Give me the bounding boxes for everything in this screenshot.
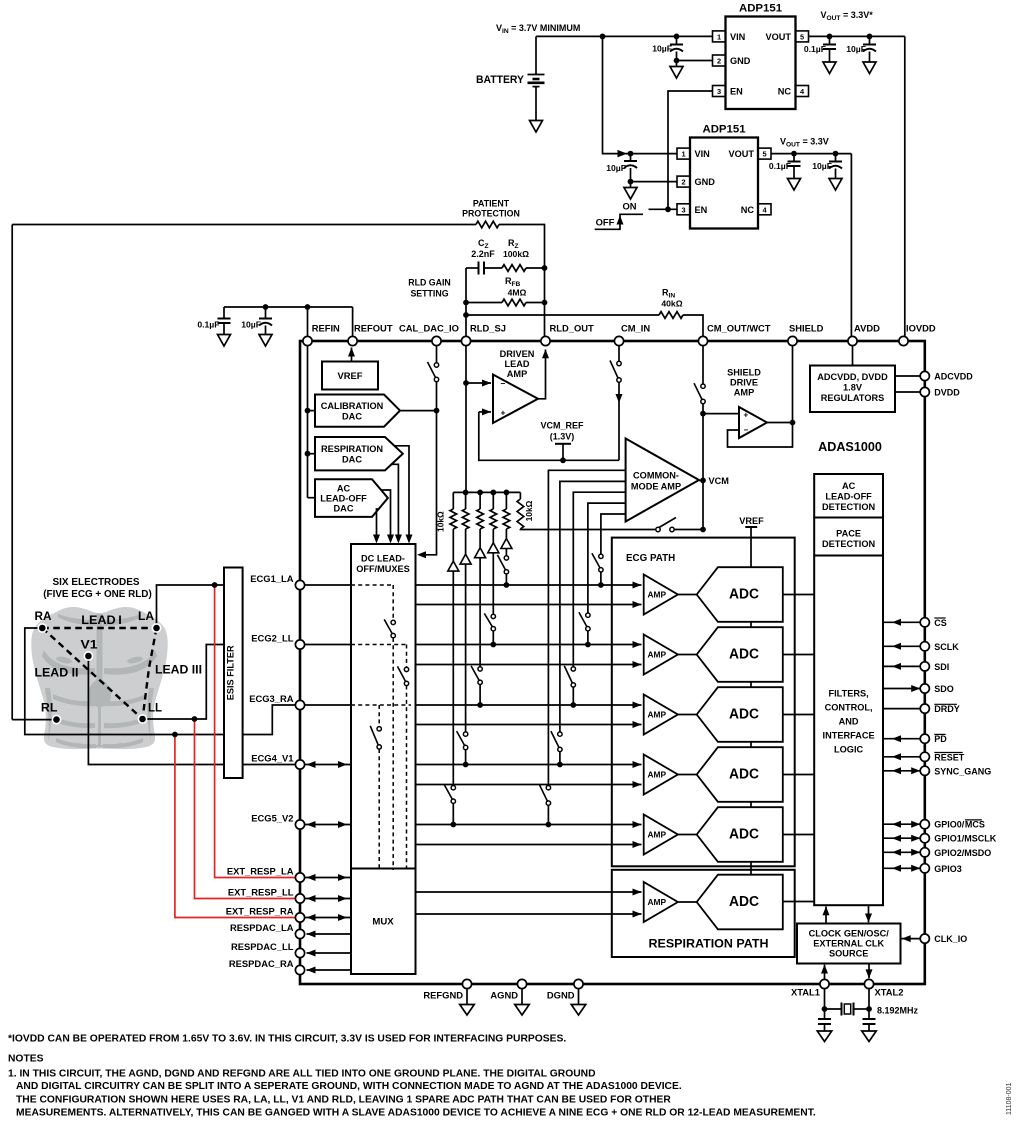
svg-text:EXT_RESP_LA: EXT_RESP_LA: [227, 866, 294, 877]
U2 pin 1 VIN: [677, 148, 710, 159]
U1 pin 4 NC: [778, 86, 809, 97]
block ECG PATH box: [612, 538, 795, 867]
dashed mux path 2: [351, 645, 407, 871]
svg-text:AND: AND: [839, 717, 859, 727]
svg-text:ADC: ADC: [729, 707, 759, 723]
wire rail to REFIN pin: [307, 307, 309, 337]
svg-text:ADCVDD: ADCVDD: [934, 372, 973, 382]
svg-text:1: 1: [681, 150, 685, 159]
ADC channel 1: [697, 567, 783, 622]
svg-text:DETECTION: DETECTION: [822, 502, 875, 512]
svg-text:10µF: 10µF: [812, 161, 832, 171]
svg-text:*IOVDD CAN BE OPERATED FROM 1.: *IOVDD CAN BE OPERATED FROM 1.65V TO 3.6…: [8, 1034, 566, 1045]
svg-text:VREF: VREF: [337, 370, 362, 381]
switch on common-mode sense ch5: [539, 785, 550, 806]
svg-text:AMP: AMP: [648, 649, 667, 659]
amp ECG channel 1: [644, 575, 678, 615]
amp ECG channel 4: [644, 755, 678, 795]
pin AVDD: [848, 323, 880, 346]
block RESPIRATION PATH box: [612, 870, 795, 957]
svg-text:LOGIC: LOGIC: [834, 745, 863, 755]
wire SDO from logic: [883, 685, 920, 692]
svg-text:1.8V: 1.8V: [843, 383, 863, 393]
svg-text:AMP: AMP: [648, 709, 667, 719]
ADC respiration: [697, 875, 783, 930]
electrode V1: [81, 638, 99, 661]
svg-text:AMP: AMP: [648, 769, 667, 779]
wire amp5 to adc5: [678, 834, 697, 836]
pin CLK_IO: [920, 934, 967, 944]
svg-text:−: −: [744, 426, 749, 435]
wire ECG channel 3 inputs: [305, 702, 642, 729]
ADC channel 2: [697, 627, 783, 682]
switch on common-mode sense ch3: [564, 666, 575, 687]
connection arrow ch1 ladder: [501, 539, 512, 549]
capacitor C8 10uF at REFIN: [241, 307, 272, 346]
crystal Y1 8.192MHz: [825, 1003, 919, 1016]
svg-text:SDI: SDI: [934, 662, 949, 672]
electrode LA: [138, 609, 161, 633]
wire U1 GND to ground: [677, 61, 713, 67]
amp U5 common-mode amp: [626, 439, 699, 522]
wire XTAL2 external: [866, 989, 872, 1031]
figure number 11108-001: [1006, 1082, 1013, 1115]
svg-text:VCM: VCM: [709, 476, 730, 486]
wire EXT_RESP_LL bidirectional to mux: [305, 895, 351, 902]
svg-text:NC: NC: [741, 205, 755, 215]
svg-text:5: 5: [800, 33, 804, 42]
svg-text:VOUT: VOUT: [765, 32, 791, 42]
pin DGND: [547, 979, 586, 1015]
svg-text:(1.3V): (1.3V): [550, 432, 575, 442]
wire U2 VOUT rail: [771, 153, 851, 155]
label 10k left: [436, 511, 446, 532]
label ADAS1000: [818, 440, 882, 454]
ground at U1 GND: [670, 67, 683, 79]
wire ECG channel 1 inputs: [305, 582, 642, 609]
wire LL electrode to ECG2_LL row: [143, 645, 225, 720]
pin SDI: [920, 662, 949, 672]
resistor RFB 4M: [466, 276, 545, 306]
pin SCLK: [920, 642, 959, 652]
switch on mux path 2: [398, 666, 409, 685]
wire SHIELD internal vertical: [790, 346, 796, 426]
node U2 rail C5: [791, 151, 797, 157]
pin DVDD: [920, 387, 960, 397]
pin ADCVDD: [920, 371, 973, 381]
svg-text:VCM_REF: VCM_REF: [540, 421, 584, 431]
svg-text:AC: AC: [337, 484, 351, 494]
wire ladder ch5 to row: [450, 571, 456, 827]
pin EXT_RESP_LA: [227, 866, 305, 883]
svg-text:NC: NC: [778, 87, 792, 97]
wire CAL_DAC_IO switch chain: [417, 346, 437, 559]
svg-text:RESET: RESET: [934, 752, 965, 762]
svg-text:LEAD II: LEAD II: [35, 666, 79, 680]
wire XTAL1 external: [822, 989, 828, 1031]
pin REFGND: [423, 979, 474, 1015]
pin ECG5_V2: [251, 813, 304, 830]
pin XTAL1: [791, 979, 829, 997]
pin RESPDAC_LA: [230, 922, 305, 939]
wire REFIN decouple rail: [224, 304, 353, 310]
capacitor at XTAL2: [862, 1019, 877, 1042]
svg-text:AVDD: AVDD: [854, 323, 880, 334]
svg-text:REFIN: REFIN: [312, 323, 340, 334]
svg-text:DETECTION: DETECTION: [822, 539, 875, 549]
svg-text:LEAD-OFF: LEAD-OFF: [320, 494, 367, 504]
svg-text:DRIVE: DRIVE: [730, 378, 758, 388]
svg-text:VOUT: VOUT: [728, 149, 754, 159]
ADC channel 4: [697, 747, 783, 802]
wire ECG5_V2 bidirectional to mux: [305, 821, 351, 828]
node U1 rail C3: [867, 34, 873, 40]
svg-text:RLD GAIN: RLD GAIN: [408, 278, 451, 288]
wire adc3 output to filters: [783, 714, 814, 716]
pin CM_IN: [614, 323, 650, 346]
wire U1 EN down to enable net: [668, 91, 713, 209]
svg-text:ADP151: ADP151: [702, 124, 746, 136]
svg-text:10µF: 10µF: [241, 320, 261, 330]
wire EXT_RESP_LL (red) from LL node: [192, 716, 296, 898]
switch on mux path 3: [370, 726, 381, 749]
node RLD net joints: [463, 265, 547, 318]
svg-text:PATIENT: PATIENT: [473, 199, 510, 209]
block ADCVDD/DVDD 1.8V REGULATORS: [810, 346, 895, 412]
svg-text:LL: LL: [148, 701, 162, 715]
label VCM_REF (1.3V): [540, 421, 584, 442]
ADAS1000 chip outline: [300, 341, 925, 984]
electrode LL: [138, 701, 162, 724]
wire amp4 to adc4: [678, 774, 697, 776]
wire V1 electrode to ECG4_V1 (passes behind ESIS filter): [88, 656, 295, 765]
wire GPIO0 bidirectional: [883, 821, 920, 828]
svg-text:CALIBRATION: CALIBRATION: [321, 401, 384, 411]
wire driven amp output to RLD_OUT: [538, 349, 549, 399]
wire RL electrode to RLD rail: [12, 719, 56, 721]
wire U2 GND to ground: [631, 182, 678, 188]
svg-text:RLD_SJ: RLD_SJ: [470, 323, 506, 334]
svg-text:RESPDAC_RA: RESPDAC_RA: [229, 958, 294, 969]
wire PD to logic: [883, 735, 920, 742]
torso graphic (six-electrode placement figure): [31, 607, 168, 749]
capacitor C4 10uF at U2 input: [606, 154, 637, 185]
pin DRDY: [920, 704, 960, 714]
block VREF: [322, 362, 378, 390]
svg-text:0.1µF: 0.1µF: [197, 320, 219, 330]
svg-text:SCLK: SCLK: [934, 642, 959, 652]
capacitor C5 0.1uF: [769, 154, 801, 190]
svg-text:GPIO3: GPIO3: [934, 864, 962, 874]
switch below CM_IN: [610, 361, 621, 383]
svg-text:EXTERNAL CLK: EXTERNAL CLK: [813, 939, 884, 949]
svg-text:LEAD: LEAD: [504, 359, 529, 369]
wire amp2 to adc2: [678, 654, 697, 656]
svg-text:XTAL1: XTAL1: [791, 987, 820, 998]
wire XTAL2 from clock block: [866, 964, 873, 979]
wire CM_OUT/WCT internal vertical: [700, 346, 706, 533]
ground below battery: [530, 121, 543, 133]
switch on mux path 1: [384, 619, 395, 637]
wire VREF distribution to ADCs (behind ADC shapes): [750, 527, 752, 875]
switch on common-mode sense ch1: [592, 553, 603, 572]
svg-text:EN: EN: [730, 87, 743, 97]
amp ECG channel 2: [644, 635, 678, 675]
svg-text:ECG5_V2: ECG5_V2: [251, 813, 293, 824]
resistor 10k R6 to VCM switch row: [517, 492, 703, 529]
label VIN = 3.7V MINIMUM: [496, 23, 580, 35]
svg-text:ESIS FILTER: ESIS FILTER: [225, 645, 235, 700]
capacitor C1 10uF at U1 input: [652, 36, 683, 63]
svg-text:ADC: ADC: [729, 587, 759, 603]
capacitor C2 0.1uF: [804, 36, 836, 73]
svg-text:ECG3_RA: ECG3_RA: [249, 693, 294, 704]
lead I dashed line RA-LA: [42, 627, 156, 629]
U1 pin 3 EN: [713, 86, 744, 97]
U2 pin 5 VOUT: [728, 148, 771, 159]
connection arrow ch3 ladder: [475, 548, 486, 558]
pin CS: [920, 618, 947, 628]
svg-text:CM_OUT/WCT: CM_OUT/WCT: [707, 323, 771, 334]
wire RESP DAC out lower to mux: [392, 464, 402, 543]
svg-text:DAC: DAC: [334, 504, 354, 514]
wire SYNC_GANG bidirectional: [883, 767, 920, 774]
svg-text:MCS: MCS: [965, 820, 985, 830]
svg-text:OFF/MUXES: OFF/MUXES: [356, 564, 410, 574]
pin IOVDD: [899, 323, 936, 346]
resistor 10k R5 (RLD ladder): [450, 492, 457, 561]
connection arrow ch4 ladder: [460, 554, 471, 564]
svg-text:IOVDD: IOVDD: [906, 323, 936, 334]
switch ladder ch5: [444, 785, 455, 804]
svg-text:DRDY: DRDY: [934, 704, 960, 714]
block PACE DETECTION: [814, 518, 883, 556]
wire shield amp feedback: [728, 423, 793, 448]
pin EXT_RESP_LL: [228, 887, 305, 904]
pin CM_OUT/WCT: [698, 323, 770, 346]
resistor RIN 40k: [659, 288, 683, 319]
node VIN junction to LDO2: [600, 34, 606, 40]
svg-text:FILTERS,: FILTERS,: [829, 689, 869, 699]
pin GPIO2/MSDO: [920, 848, 991, 858]
wire AVDD supply from U2: [850, 154, 852, 337]
svg-text:10kΩ: 10kΩ: [436, 511, 446, 532]
U1 pin 2 GND: [713, 55, 751, 66]
wire ECG channel 4 inputs: [416, 761, 642, 788]
svg-text:DVDD: DVDD: [934, 388, 960, 398]
svg-text:CLOCK GEN/OSC/: CLOCK GEN/OSC/: [809, 929, 890, 939]
VCM_REF terminal bar: [555, 444, 571, 463]
wire common-mode sense ch1: [598, 514, 626, 588]
lead II dashed line RA-LL: [42, 628, 142, 719]
svg-text:RA: RA: [35, 609, 52, 623]
wire AC DAC out upper to mux: [381, 490, 394, 544]
svg-text:ON: ON: [622, 201, 636, 212]
svg-text:10kΩ: 10kΩ: [524, 500, 534, 521]
svg-text:0.1µF: 0.1µF: [804, 44, 826, 54]
svg-text:RESPDAC_LL: RESPDAC_LL: [231, 941, 294, 952]
connection arrow ch5 ladder: [448, 561, 459, 571]
VREF terminal bar for ADCs: [739, 516, 764, 527]
label VOUT = 3.3V* (U1 output): [821, 10, 874, 22]
label LEAD II: [35, 666, 79, 680]
svg-text:CLK_IO: CLK_IO: [934, 934, 967, 944]
wire common-mode sense ch5: [546, 470, 626, 827]
pin SHIELD: [788, 323, 824, 346]
block CLOCK GEN/OSC/EXTERNAL CLK SOURCE: [797, 924, 901, 964]
wire to driven amp inverting input: [466, 380, 491, 387]
wire ladder ch4 to row: [463, 564, 469, 767]
wire RLD_SJ internal vertical: [463, 346, 469, 493]
wire VIN to U2 with arrow: [603, 36, 678, 157]
svg-text:LEAD-OFF: LEAD-OFF: [825, 492, 872, 502]
svg-text:LEAD I: LEAD I: [81, 613, 122, 627]
svg-text:PD: PD: [934, 734, 947, 744]
wire resp amp to adc: [678, 901, 697, 903]
switch ladder ch1: [497, 555, 508, 574]
node U2 input cap junction: [628, 151, 634, 157]
capacitor CZ 2.2nF: [466, 238, 502, 275]
svg-text:100kΩ: 100kΩ: [503, 249, 529, 259]
pin RESET: [920, 752, 965, 762]
svg-text:SETTING: SETTING: [410, 289, 448, 299]
wire GPIO3 bidirectional: [883, 865, 920, 872]
svg-text:ADC: ADC: [729, 767, 759, 783]
svg-text:EN: EN: [695, 205, 708, 215]
wire RESET to logic: [883, 753, 920, 760]
svg-text:10µF: 10µF: [606, 163, 626, 173]
svg-text:ECG1_LA: ECG1_LA: [250, 573, 293, 584]
switch on common-mode sense ch4: [551, 731, 562, 752]
svg-text:RL: RL: [41, 701, 58, 715]
svg-text:MEASUREMENTS. ALTERNATIVELY, T: MEASUREMENTS. ALTERNATIVELY, THIS CAN BE…: [16, 1108, 816, 1119]
svg-text:RESPIRATION: RESPIRATION: [321, 444, 383, 454]
svg-text:THE CONFIGURATION SHOWN HERE U: THE CONFIGURATION SHOWN HERE USES RA, LA…: [16, 1095, 671, 1106]
svg-text:DGND: DGND: [547, 990, 575, 1001]
svg-text:PROTECTION: PROTECTION: [462, 209, 520, 219]
switch on common-mode sense ch2: [579, 612, 590, 631]
wire ladder ch2 to row: [490, 553, 496, 648]
wire REFIN internal distribution: [305, 346, 315, 498]
svg-text:GND: GND: [695, 177, 716, 187]
U2 pin 3 EN: [677, 204, 708, 215]
svg-text:GND: GND: [730, 56, 751, 66]
svg-text:SOURCE: SOURCE: [829, 949, 868, 959]
dashed mux path 3: [351, 705, 411, 870]
svg-text:RESPIRATION PATH: RESPIRATION PATH: [649, 937, 769, 951]
svg-text:AGND: AGND: [490, 990, 518, 1001]
wire CS to logic: [883, 619, 920, 626]
wire common-mode sense ch3: [570, 492, 625, 708]
amp ECG channel 5: [644, 815, 678, 855]
pin CAL_DAC_IO: [399, 323, 459, 346]
svg-text:GPIO1/MSCLK: GPIO1/MSCLK: [934, 834, 997, 844]
on-off step symbol: [595, 214, 643, 229]
svg-text:DRIVEN: DRIVEN: [500, 349, 535, 359]
svg-text:NOTES: NOTES: [8, 1054, 44, 1065]
svg-text:DAC: DAC: [342, 412, 362, 422]
pin REFOUT: [348, 323, 393, 346]
note IOVDD operating range: [8, 1034, 566, 1045]
wire ladder ch3 to row: [477, 558, 483, 708]
svg-text:3: 3: [717, 87, 721, 96]
svg-text:3: 3: [681, 205, 685, 214]
wire SDI to logic: [883, 663, 920, 670]
node VIN junction at C1: [674, 34, 680, 40]
wire CM amp output to VCM node: [699, 479, 703, 481]
block AC LEAD-OFF DETECTION: [814, 474, 883, 518]
wire common-mode sense ch4: [557, 481, 626, 767]
wire RESP DAC out upper to mux: [394, 446, 412, 544]
U2 pin 4 NC: [741, 204, 771, 215]
wire driven amp non-inverting input: [479, 408, 619, 460]
svg-text:ECG4_V1: ECG4_V1: [251, 753, 293, 764]
svg-text:OFF: OFF: [596, 216, 615, 227]
svg-text:INTERFACE: INTERFACE: [823, 731, 875, 741]
svg-text:AMP: AMP: [648, 829, 667, 839]
svg-text:+: +: [744, 411, 749, 420]
svg-text:(FIVE ECG + ONE RLD): (FIVE ECG + ONE RLD): [43, 589, 152, 600]
wire U1 VOUT rail: [809, 35, 905, 37]
wire RESPDAC_LA from mux: [307, 931, 352, 938]
svg-text:SIX ELECTRODES: SIX ELECTRODES: [53, 577, 140, 588]
svg-text:2: 2: [717, 57, 721, 66]
wire respiration amp inputs: [416, 889, 642, 918]
wire GPIO2 bidirectional: [883, 849, 920, 856]
wire adc2 output to filters: [783, 654, 814, 656]
label LEAD I: [81, 613, 122, 627]
svg-text:MUX: MUX: [372, 917, 394, 928]
wire VIN rail: [536, 35, 713, 37]
svg-text:ADAS1000: ADAS1000: [818, 440, 882, 454]
label VOUT = 3.3V (U2 output): [780, 137, 829, 149]
wire SCLK to logic: [883, 643, 920, 650]
svg-text:BATTERY: BATTERY: [476, 74, 524, 86]
resistor 10k R3 (RLD ladder): [477, 492, 484, 547]
capacitor at XTAL1: [817, 1019, 832, 1042]
pin ECG1_LA: [250, 573, 304, 590]
U1 pin 5 VOUT: [765, 31, 808, 42]
svg-text:4MΩ: 4MΩ: [508, 288, 527, 298]
regulator U1 ADP151 body: [726, 3, 796, 110]
wire RIN from RLD_SJ to CM_OUT/WCT: [466, 315, 703, 337]
svg-text:LA: LA: [138, 609, 154, 623]
svg-text:XTAL2: XTAL2: [875, 987, 904, 998]
label VCM: [709, 476, 730, 486]
svg-text:RLD_OUT: RLD_OUT: [550, 323, 595, 334]
wire RESPDAC_RA from mux: [307, 967, 352, 974]
connection arrow ch2 ladder: [488, 543, 499, 553]
wire EXT_RESP_RA bidirectional to mux: [305, 914, 351, 921]
label PATIENT PROTECTION: [462, 199, 520, 219]
svg-text:CAL_DAC_IO: CAL_DAC_IO: [399, 323, 459, 334]
wire adc1 output to filters: [783, 594, 814, 596]
svg-text:40kΩ: 40kΩ: [661, 299, 682, 309]
pin ECG4_V1: [251, 753, 304, 770]
pin EXT_RESP_RA: [226, 906, 305, 923]
svg-text:ECG2_LL: ECG2_LL: [251, 633, 293, 644]
wire VREF to REFOUT with arrow: [348, 348, 355, 362]
svg-text:AMP: AMP: [648, 589, 667, 599]
svg-text:SHIELD: SHIELD: [789, 323, 824, 334]
wire patient protection rail: [12, 225, 544, 337]
label SIX ELECTRODES (FIVE ECG + ONE RLD): [43, 577, 152, 600]
svg-text:AC: AC: [842, 481, 856, 491]
pin PD: [920, 734, 947, 744]
svg-text:DC LEAD-: DC LEAD-: [361, 554, 405, 564]
svg-text:ECG PATH: ECG PATH: [626, 553, 675, 564]
svg-text:AMP: AMP: [734, 388, 754, 398]
